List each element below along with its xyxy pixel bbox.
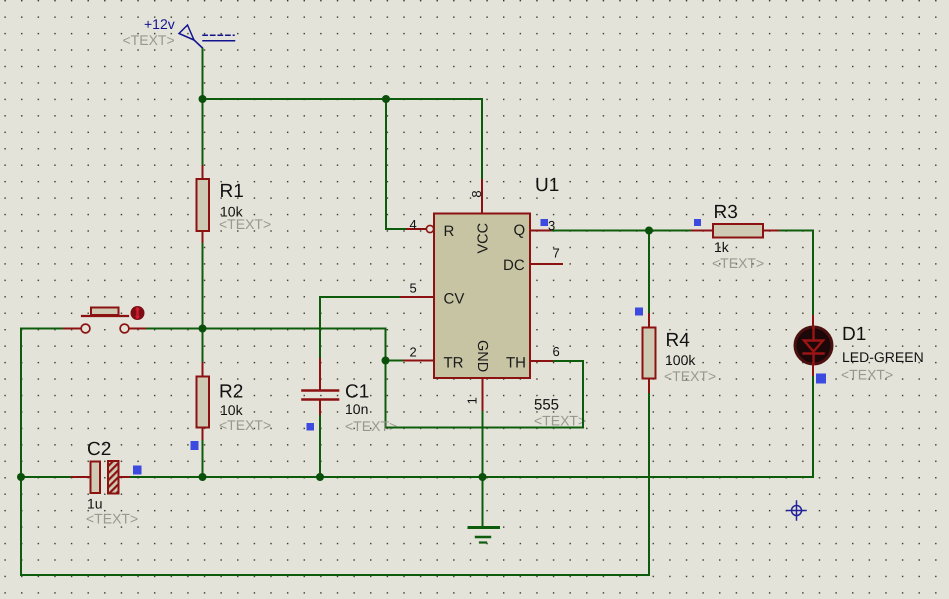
wire: R4 bottom [648, 392, 650, 477]
pin 8 stub [481, 180, 483, 214]
svg-text:R2: R2 [219, 382, 243, 403]
capacitor C2 [72, 461, 131, 494]
wire: CV branch [320, 297, 401, 359]
LED D1 [795, 316, 832, 377]
svg-text:<TEXT>: <TEXT> [123, 32, 175, 48]
pin 4 bubble [426, 225, 433, 232]
svg-text:D1: D1 [842, 324, 866, 345]
pin 1 stub [482, 377, 484, 412]
svg-text:CV: CV [444, 291, 465, 308]
svg-text:100k: 100k [665, 352, 696, 368]
svg-text:R4: R4 [666, 330, 691, 351]
wire: power stem to top rail [194, 40, 203, 99]
svg-text:R1: R1 [220, 181, 244, 202]
svg-text:<TEXT>: <TEXT> [712, 255, 764, 271]
wire: button row left [21, 329, 64, 478]
wire: R4 top to Q junction [648, 231, 650, 313]
svg-text:7: 7 [553, 246, 560, 261]
svg-text:Q: Q [514, 222, 526, 239]
svg-text:10k: 10k [220, 402, 244, 418]
svg-text:<TEXT>: <TEXT> [664, 368, 716, 384]
svg-text:R3: R3 [714, 202, 738, 223]
svg-text:C1: C1 [345, 382, 369, 403]
wire: VCC drop to pin 8 [481, 99, 483, 180]
switch actuator button [131, 306, 145, 320]
marker: C2 origin [133, 466, 142, 475]
node: TR junction [382, 357, 390, 365]
pin 5 stub [401, 296, 434, 298]
svg-text:<TEXT>: <TEXT> [86, 511, 138, 527]
svg-text:2: 2 [410, 345, 417, 360]
resistor R4 [643, 312, 656, 392]
svg-text:LED-GREEN: LED-GREEN [842, 349, 924, 365]
node: R2 / C2 / rail junction [199, 473, 207, 481]
wire: R3 to D1 corner [780, 231, 813, 317]
wire: Q to junction [552, 230, 692, 232]
pin 3 stub [530, 230, 552, 232]
wire: C1 bottom to ground rail [319, 416, 321, 477]
svg-text:8: 8 [469, 190, 484, 197]
wire: R1 top [202, 99, 204, 166]
node: switch / R1 / R2 junction [199, 325, 207, 333]
wire: R2 top from junction [202, 329, 204, 364]
marker crosshair [787, 501, 806, 520]
svg-text:5: 5 [410, 281, 417, 296]
wire: TR-TH loop under IC [386, 361, 584, 428]
svg-text:555: 555 [534, 397, 559, 414]
marker: D1 origin [816, 374, 826, 384]
svg-text:U1: U1 [535, 175, 559, 196]
svg-text:4: 4 [410, 217, 417, 232]
svg-text:3: 3 [548, 218, 555, 233]
svg-text:10n: 10n [345, 401, 368, 417]
svg-text:<TEXT>: <TEXT> [219, 417, 271, 433]
ground [469, 477, 499, 543]
wire: rail y=477 across [131, 476, 813, 478]
switch cap [91, 308, 119, 316]
svg-text:<TEXT>: <TEXT> [534, 413, 586, 429]
resistor R3 [692, 224, 780, 238]
power terminal +12v [179, 25, 235, 41]
marker: R3 origin [694, 219, 701, 226]
pin 4 stub [407, 228, 426, 230]
svg-text:DC: DC [503, 257, 525, 274]
svg-text:1k: 1k [714, 239, 730, 255]
wire: corner down to TR junction [386, 329, 405, 361]
wire: R1 bottom to button row [202, 244, 204, 329]
node: VCC rail / R1 junction [199, 95, 207, 103]
wire: D1 bottom to rail corner [812, 377, 814, 477]
svg-text:<TEXT>: <TEXT> [345, 418, 397, 434]
wire: branch to pin 4 [386, 99, 407, 229]
wire: pin1 to rail [482, 412, 484, 477]
wire: top rail y=99 [203, 98, 483, 100]
node: C1 / rail junction [316, 473, 324, 481]
pin 2 stub [404, 360, 434, 362]
marker: C1 origin [307, 423, 315, 431]
marker: R4 origin [635, 308, 643, 316]
IC U1 555 body [434, 214, 530, 379]
svg-text:VCC: VCC [476, 223, 492, 254]
svg-text:GND: GND [474, 340, 490, 372]
svg-text:<TEXT>: <TEXT> [219, 216, 271, 232]
node: GND rail junction [479, 473, 487, 481]
node: Q / R3 / R4 junction [645, 227, 653, 235]
svg-text:TR: TR [444, 355, 464, 372]
marker: R2 origin [191, 441, 199, 450]
svg-text:1u: 1u [87, 496, 103, 512]
resistor R1 [197, 166, 210, 244]
svg-text:R: R [444, 223, 455, 240]
wire overdraw: TH loop over text [386, 427, 584, 429]
wire: bottom rail y=575 [21, 477, 649, 575]
capacitor C1 [303, 359, 339, 416]
node: VCC rail / pin-4 branch junction [382, 95, 390, 103]
svg-text:<TEXT>: <TEXT> [841, 367, 893, 383]
wire: button to junction and on to TR corner [147, 328, 386, 330]
node: left rail / C2 junction [17, 473, 25, 481]
pin 6 stub [530, 360, 552, 362]
svg-text:C2: C2 [87, 439, 111, 460]
wire: left vertical down to bottom rail [20, 477, 22, 575]
marker: pin 3 origin [541, 219, 549, 226]
svg-text:+12v: +12v [144, 16, 175, 32]
svg-text:6: 6 [553, 344, 560, 359]
wire: left rail at y=477 [21, 476, 72, 478]
svg-text:1: 1 [465, 397, 480, 404]
switch terminal circles [81, 324, 90, 333]
resistor R2 [197, 363, 210, 441]
wire: R2 bottom to rail [202, 441, 204, 477]
switch SW leads [64, 328, 81, 330]
pin 7 stub [530, 263, 562, 265]
svg-text:TH: TH [506, 355, 526, 372]
